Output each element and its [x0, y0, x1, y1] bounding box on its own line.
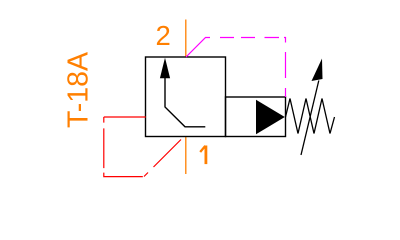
pilot line magenta horizontal dashes	[220, 37, 279, 39]
drain line red diagonal dashes	[144, 140, 181, 177]
drain line red vertical dashes	[103, 117, 105, 168]
pilot check triangle	[256, 100, 285, 135]
adjustment arrow line	[301, 81, 319, 156]
valve body main envelope	[146, 57, 226, 137]
pilot line magenta diagonal from port 2 node	[186, 38, 210, 58]
pilot line magenta vertical dashes	[285, 52, 287, 97]
wire port 2 line	[185, 20, 187, 58]
pilot box envelope	[226, 97, 286, 137]
valve flow path line	[165, 77, 205, 127]
pilot line magenta corner	[284, 38, 286, 43]
drain line red solid from valve left	[104, 116, 146, 118]
valve flow path arrowhead	[160, 58, 170, 79]
svg-text:2: 2	[155, 20, 170, 51]
wire port 1 line	[185, 137, 187, 175]
adjustment arrowhead	[312, 59, 323, 82]
label port 1	[200, 146, 206, 165]
svg-text:T-18A: T-18A	[62, 52, 94, 128]
drain line red bottom corner	[104, 173, 143, 177]
spring	[286, 99, 335, 134]
